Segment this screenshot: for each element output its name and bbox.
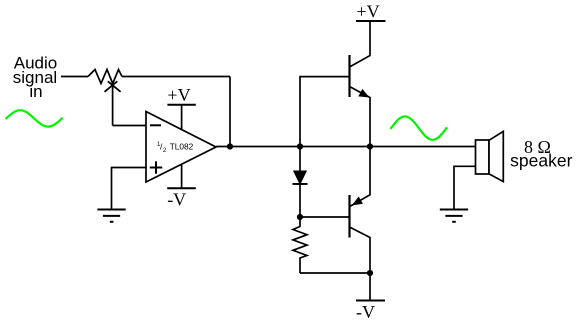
wire wiper to op-amp inverting input — [113, 125, 146, 127]
svg-text:+V: +V — [356, 1, 379, 21]
wire junction up to Q1 base — [300, 77, 350, 147]
svg-text:-V: -V — [356, 302, 375, 322]
ground (op-amp + input) — [97, 210, 125, 222]
green input sine wave — [6, 110, 62, 126]
node emitters junction — [367, 143, 373, 149]
transistor Q2 emitter — [350, 147, 371, 207]
op-amp label 1/2 TL082 — [157, 141, 194, 153]
transistor Q1 (NPN) body — [348, 55, 350, 97]
wire resistor bottom to -V junction — [300, 272, 370, 274]
op-amp +V supply — [167, 85, 195, 130]
svg-text:+V: +V — [167, 85, 190, 105]
svg-text:in: in — [29, 82, 42, 101]
speaker horn — [489, 131, 503, 181]
svg-text:TL082: TL082 — [170, 141, 194, 151]
transistor Q1 collector — [350, 21, 371, 67]
wire feedback top rail (resistor right to feedback corner) — [122, 76, 230, 78]
diode D1 — [293, 171, 308, 184]
transistor Q2 collector — [350, 227, 371, 273]
node feedback junction — [227, 143, 233, 149]
node -V junction — [367, 270, 373, 276]
op-amp U1 triangle — [146, 112, 216, 183]
wire diode to lower junction — [299, 184, 301, 217]
resistor R2 (vertical zigzag) — [293, 217, 307, 273]
node bases junction — [297, 143, 303, 149]
transistor Q1 emitter — [350, 87, 371, 147]
svg-text:speaker: speaker — [510, 151, 572, 171]
wire junction to Q2 base — [300, 216, 350, 218]
speaker body — [476, 140, 490, 174]
svg-text:-V: -V — [167, 190, 186, 210]
potentiometer wiper arrow — [105, 81, 121, 125]
op-amp -V supply — [167, 164, 196, 210]
-V supply bar (bottom) — [356, 300, 385, 302]
transistor Q2 (PNP) body — [348, 195, 350, 238]
wire input to potentiometer — [61, 76, 88, 78]
label "Audio signal in" — [13, 54, 57, 102]
speaker second terminal wire — [454, 166, 476, 209]
wire op-amp output rail — [216, 146, 476, 148]
transistor Q2 emitter arrow — [353, 197, 362, 204]
node Q2 base junction — [297, 214, 303, 220]
transistor Q1 emitter arrow — [359, 90, 368, 97]
wire junction down to diode — [299, 147, 301, 172]
potentiometer R1 (zigzag) — [88, 70, 122, 84]
wire op-amp noninverting input — [112, 168, 147, 210]
op-amp plus sign — [150, 161, 162, 173]
ground (speaker) — [440, 210, 468, 222]
wire feedback vertical — [229, 77, 231, 147]
green output sine wave — [391, 116, 447, 139]
wire junction to -V bar — [369, 273, 371, 300]
+V supply bar (top) — [356, 20, 386, 22]
op-amp minus sign — [150, 124, 161, 126]
